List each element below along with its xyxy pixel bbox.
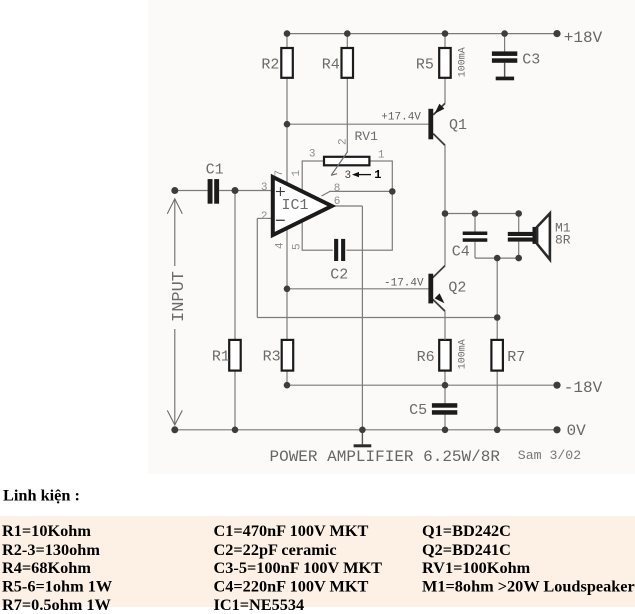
svg-text:-18V: -18V — [564, 379, 603, 397]
svg-text:-17.4V: -17.4V — [384, 277, 424, 289]
svg-text:0V: 0V — [567, 422, 587, 440]
terminal -18V — [553, 382, 560, 389]
wire C5 bottom lead — [444, 414, 446, 429]
INPUT annotation arrow line — [167, 199, 182, 425]
wire R2 bottom lead to +17.4V node — [286, 78, 288, 124]
capacitor C5 — [432, 403, 457, 415]
wire C3 bottom lead to stub — [504, 63, 506, 77]
svg-text:3: 3 — [309, 149, 316, 161]
junction C3 top rail — [501, 30, 508, 37]
terminal +18V — [553, 30, 560, 37]
wire R2 top lead — [286, 34, 288, 49]
wire speaker top lead — [518, 214, 520, 233]
op-amp U1 IC1 triangle — [273, 177, 332, 235]
wire output node to C4 and speaker — [445, 213, 519, 215]
wire input to C1 — [175, 190, 208, 192]
svg-text:5: 5 — [292, 243, 304, 250]
RV1 rotation annotation 3 to 1 — [345, 168, 382, 182]
svg-text:C4=220nF 100V MKT: C4=220nF 100V MKT — [214, 577, 369, 596]
junction R7 bottom 0V — [494, 427, 501, 434]
transistor Q1 — [428, 103, 445, 145]
svg-text:INPUT: INPUT — [170, 271, 189, 322]
wire C4 bottom to speaker bottom — [475, 257, 519, 259]
wire R7 bottom lead to 0V — [496, 371, 498, 430]
svg-text:R1: R1 — [212, 348, 230, 365]
capacitor C1 — [208, 179, 219, 204]
capacitor C2 — [333, 239, 347, 261]
wire C3 top lead — [504, 34, 506, 52]
svg-text:2: 2 — [338, 138, 350, 145]
svg-text:1: 1 — [374, 168, 381, 182]
svg-text:8R: 8R — [555, 232, 571, 247]
junction R1 bottom 0V — [232, 427, 239, 434]
junction +17.4V node — [284, 121, 291, 128]
svg-text:C4: C4 — [452, 243, 470, 260]
wire 0V rail — [175, 429, 557, 431]
junction input 0V — [171, 426, 178, 433]
svg-text:C2: C2 — [330, 266, 348, 283]
svg-text:Q1: Q1 — [449, 117, 467, 134]
wire -17.4V line to Q2 base — [287, 288, 428, 290]
junction C4 top — [472, 210, 479, 217]
svg-text:+18V: +18V — [564, 29, 603, 47]
junction feedback R7 top — [494, 314, 501, 321]
wire R4 bottom lead to RV1 wiper — [346, 78, 348, 152]
svg-text:4: 4 — [275, 242, 287, 249]
wire +18V top rail — [287, 33, 557, 35]
junction speaker top — [515, 210, 522, 217]
svg-text:R3: R3 — [263, 348, 281, 365]
svg-text:C1: C1 — [206, 161, 224, 178]
resistor R6 — [439, 340, 451, 371]
svg-text:Q2=BD241C: Q2=BD241C — [422, 540, 511, 559]
wire feedback vertical from pin 2 — [256, 218, 258, 317]
wire R5 bottom lead — [444, 78, 446, 104]
op-amp plus input mark — [276, 187, 285, 196]
wire R1 column — [234, 191, 236, 340]
resistor R3 — [282, 340, 294, 371]
junction C1 output node — [232, 187, 239, 194]
resistor R7 — [491, 340, 503, 371]
resistor R1 — [229, 340, 241, 371]
op-amp minus input mark — [276, 219, 285, 221]
resistor R5 — [439, 48, 451, 78]
svg-text:C3: C3 — [522, 52, 540, 69]
svg-text:8: 8 — [334, 183, 341, 195]
svg-text:3: 3 — [345, 170, 352, 182]
svg-text:RV1: RV1 — [355, 129, 379, 144]
wire R4 top lead — [346, 34, 348, 49]
svg-text:IC1: IC1 — [282, 197, 309, 214]
potentiometer RV1 body — [324, 157, 369, 166]
svg-text:R4=68Kohm: R4=68Kohm — [2, 558, 91, 577]
potentiometer RV1 wiper arrow — [331, 152, 348, 176]
input terminal dot — [171, 187, 178, 194]
svg-text:1: 1 — [378, 150, 385, 162]
svg-text:R7=0.5ohm 1W: R7=0.5ohm 1W — [2, 595, 111, 614]
svg-text:100mA: 100mA — [458, 339, 469, 369]
ground symbol — [354, 430, 372, 448]
svg-text:R1=10Kohm: R1=10Kohm — [2, 521, 91, 540]
svg-text:Q2: Q2 — [448, 280, 466, 297]
junction R6 bottom -18V — [442, 382, 449, 389]
parts list cream band — [0, 516, 635, 607]
wire C1 to IC1 pin 3 — [219, 190, 271, 192]
wire R7 top column — [496, 258, 498, 340]
wire -18V rail — [287, 384, 557, 386]
svg-text:+17.4V: +17.4V — [381, 111, 421, 123]
ground stub of C3 — [496, 63, 514, 80]
svg-text:C1=470nF 100V MKT: C1=470nF 100V MKT — [214, 521, 369, 540]
svg-text:100mA: 100mA — [458, 47, 469, 77]
scan background — [148, 0, 635, 474]
svg-text:C5: C5 — [409, 402, 427, 419]
wire IC1 pin 2 lead — [257, 217, 271, 219]
svg-text:7: 7 — [274, 170, 286, 177]
junction -17.4V node — [284, 286, 291, 293]
wire C5 top lead — [444, 385, 446, 403]
svg-text:C2=22pF ceramic: C2=22pF ceramic — [214, 540, 337, 559]
junction pin 8 at box edge — [389, 188, 396, 195]
junction R5 top rail — [442, 30, 449, 37]
svg-text:6: 6 — [334, 196, 341, 208]
svg-text:R2: R2 — [261, 56, 279, 73]
wire Q2 emitter to R6 — [444, 311, 446, 340]
wire R5 top lead — [444, 34, 446, 49]
svg-text:R4: R4 — [322, 56, 340, 73]
transistor Q2 — [428, 266, 445, 312]
svg-text:POWER AMPLIFIER 6.25W/8R: POWER AMPLIFIER 6.25W/8R — [270, 448, 501, 466]
wire C4 bottom lead — [474, 242, 476, 258]
junction R4 top rail — [344, 30, 351, 37]
junction R2 top rail — [284, 30, 291, 37]
resistor R4 — [342, 48, 354, 78]
svg-text:C3-5=100nF 100V MKT: C3-5=100nF 100V MKT — [214, 558, 383, 577]
wire IC1 feedback box — [302, 161, 392, 250]
junction output node — [442, 210, 449, 217]
terminal 0V — [553, 426, 560, 433]
svg-text:R7: R7 — [507, 349, 525, 366]
resistor R2 — [281, 48, 293, 78]
wire IC1 pins 7 and 4 column (R2 node to R3) — [286, 124, 288, 340]
svg-text:Linh kiện :: Linh kiện : — [3, 486, 80, 505]
wire feedback line to R7 — [257, 317, 497, 319]
wire R3 bottom lead — [286, 371, 288, 386]
svg-text:Sam 3/02: Sam 3/02 — [518, 448, 581, 463]
junction C5 bottom 0V — [442, 427, 449, 434]
wire speaker bottom lead — [518, 242, 520, 259]
wire IC1 pin 6 output column to 0V — [361, 206, 363, 430]
junction speaker bottom — [515, 255, 522, 262]
svg-text:IC1=NE5534: IC1=NE5534 — [214, 595, 305, 614]
loudspeaker M1 — [508, 213, 550, 259]
junction ground 0V — [359, 427, 366, 434]
wire Q1 collector to output node — [444, 145, 446, 265]
svg-text:2: 2 — [261, 211, 268, 223]
svg-text:3: 3 — [261, 182, 268, 194]
capacitor C4 — [463, 232, 488, 242]
svg-text:1: 1 — [291, 170, 303, 177]
svg-text:RV1=100Kohm: RV1=100Kohm — [422, 558, 531, 577]
svg-text:R5-6=1ohm 1W: R5-6=1ohm 1W — [2, 577, 113, 596]
wire R1 bottom lead — [234, 371, 236, 430]
svg-text:Q1=BD242C: Q1=BD242C — [422, 521, 511, 540]
wire R6 bottom lead — [444, 371, 446, 386]
svg-text:M1=8ohm >20W Loudspeaker: M1=8ohm >20W Loudspeaker — [422, 577, 635, 596]
capacitor C3 — [492, 51, 517, 62]
svg-text:R2-3=130ohm: R2-3=130ohm — [2, 540, 100, 559]
wire IC1 apex to pin 6 column — [332, 205, 363, 207]
wire +17.4V line to Q1 base — [287, 123, 428, 125]
junction C4 bottom R7 — [494, 255, 501, 262]
junction R3 bottom -18V — [284, 382, 291, 389]
svg-text:R5: R5 — [416, 56, 434, 73]
wire IC1 pin 8 diagonal — [322, 191, 393, 196]
svg-text:R6: R6 — [417, 349, 435, 366]
wire C4 top lead — [474, 214, 476, 232]
